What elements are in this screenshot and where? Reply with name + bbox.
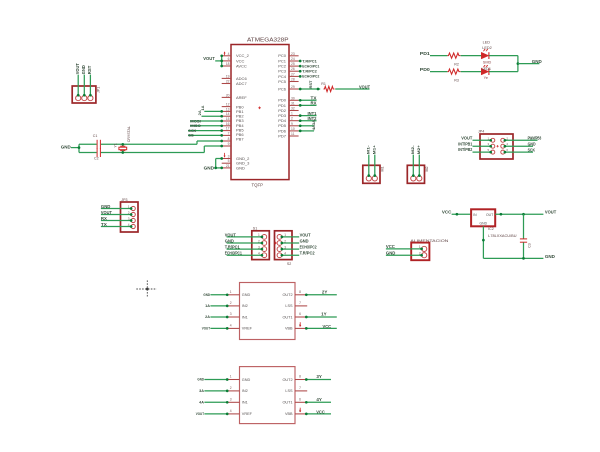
- power arrow above IC1 pin 4: [224, 52, 226, 55]
- svg-text:8: 8: [299, 375, 301, 379]
- svg-text:T.R/PC1: T.R/PC1: [225, 245, 241, 250]
- svg-text:RST: RST: [308, 80, 313, 89]
- wire net 2A to IC3 left: [205, 315, 228, 319]
- svg-text:VOUT: VOUT: [75, 63, 80, 74]
- IC1 left pins with pin numbers and names: [222, 52, 250, 171]
- wire net INT2: [299, 116, 318, 122]
- svg-text:LSS: LSS: [285, 304, 293, 308]
- svg-text:1Y: 1Y: [321, 312, 327, 317]
- svg-text:LED2: LED2: [482, 46, 492, 50]
- svg-text:3A: 3A: [199, 389, 204, 393]
- wire LED1 to junction: [489, 71, 518, 73]
- svg-text:PC5: PC5: [278, 79, 287, 84]
- wire net PD1 to R2: [420, 51, 448, 56]
- svg-text:1: 1: [230, 375, 232, 379]
- svg-text:LSS: LSS: [285, 389, 293, 393]
- svg-text:VOUT: VOUT: [196, 412, 205, 416]
- svg-text:29: 29: [291, 85, 295, 89]
- svg-text:1: 1: [230, 290, 232, 294]
- wire net PWM/PB3 to JP4 right: [504, 136, 542, 142]
- wire net GND to S1: [225, 238, 263, 244]
- connector S1: [252, 227, 269, 260]
- svg-text:1: 1: [291, 112, 293, 116]
- svg-text:PWM/PB3: PWM/PB3: [528, 136, 542, 141]
- svg-text:VOUT: VOUT: [359, 84, 370, 89]
- wire net GND to JP1 pin 2: [81, 65, 86, 96]
- svg-text:2: 2: [230, 386, 232, 390]
- wire net 4Y to IC4 right: [305, 397, 331, 404]
- wire net 3A: [299, 120, 317, 127]
- svg-text:22: 22: [226, 80, 230, 84]
- svg-text:SMD: SMD: [483, 61, 492, 65]
- svg-text:INT/PB1: INT/PB1: [458, 141, 473, 146]
- svg-text:PD7: PD7: [278, 133, 287, 138]
- wire net 1A to IC3 left: [205, 304, 228, 308]
- wire net 4A: [299, 125, 317, 132]
- svg-text:PD0: PD0: [420, 67, 431, 72]
- junction of LED cathodes to GND: [517, 56, 542, 72]
- svg-text:VREF: VREF: [242, 412, 253, 416]
- svg-text:2A: 2A: [205, 315, 210, 319]
- resistor R1: [321, 82, 334, 92]
- svg-text:GND: GND: [81, 65, 86, 74]
- svg-text:GND: GND: [532, 59, 542, 64]
- svg-text:26: 26: [291, 67, 295, 71]
- wire net INT/PB2 to JP4 left: [458, 147, 492, 153]
- wire net M1- to M1 pin 1: [366, 144, 371, 177]
- wire net ECHO/PC2 to S2: [281, 245, 318, 251]
- wire net 3Y to IC4 right: [305, 374, 331, 381]
- connector JP1: [72, 86, 100, 103]
- svg-text:L78LXXACU/BU: L78LXXACU/BU: [488, 234, 517, 238]
- wire net VOUT to JP3: [101, 210, 133, 216]
- svg-text:T.R/PC2: T.R/PC2: [300, 251, 316, 256]
- node GND at IC1 ground pins: [204, 157, 223, 170]
- wire net GND to IC3 left: [203, 293, 228, 297]
- wire net RST to JP1 pin 3: [87, 65, 92, 96]
- svg-text:AVCC: AVCC: [236, 63, 247, 68]
- motor driver IC4 body: [240, 367, 296, 424]
- wire net 1Y to IC3 right: [305, 312, 337, 319]
- svg-text:32: 32: [291, 107, 295, 111]
- wire net TX to JP3: [101, 222, 133, 228]
- svg-text:7: 7: [299, 386, 301, 390]
- svg-text:18: 18: [226, 62, 230, 66]
- wire net RX to JP3: [101, 216, 133, 222]
- svg-text:GND: GND: [101, 204, 111, 209]
- svg-text:9: 9: [291, 122, 293, 126]
- svg-text:C2: C2: [94, 157, 99, 161]
- svg-text:ADC7: ADC7: [236, 81, 247, 86]
- wire XTAL2 bottom: [79, 145, 223, 153]
- svg-text:20: 20: [226, 93, 230, 97]
- svg-text:VOUT: VOUT: [203, 56, 215, 61]
- svg-text:3: 3: [230, 312, 232, 316]
- svg-text:25: 25: [291, 62, 295, 66]
- ground arrow above IC1 pin 3: [224, 153, 226, 157]
- wire to node VOUT after R1: [335, 84, 370, 89]
- crystal Y1: [114, 126, 132, 154]
- svg-text:ECHO/PC2: ECHO/PC2: [302, 74, 320, 79]
- svg-text:IN2: IN2: [242, 389, 248, 393]
- svg-text:24: 24: [291, 57, 295, 61]
- wire PB3 net MOSI: [190, 118, 223, 123]
- wire net INT/PB1 to JP4 left: [458, 141, 492, 147]
- svg-text:LED: LED: [483, 41, 491, 45]
- svg-text:VREF: VREF: [242, 327, 253, 331]
- svg-text:VCC: VCC: [316, 410, 325, 415]
- wire net GND to JP3: [101, 204, 133, 210]
- svg-text:VOUT: VOUT: [300, 232, 311, 237]
- IC1 right pins with pin numbers and names: [278, 52, 298, 139]
- svg-text:15: 15: [226, 117, 230, 121]
- svg-text:3: 3: [230, 397, 232, 401]
- svg-text:27: 27: [291, 72, 295, 76]
- svg-text:JP4: JP4: [478, 130, 484, 134]
- svg-text:30: 30: [291, 96, 295, 100]
- svg-text:SCK: SCK: [528, 147, 535, 152]
- svg-text:GND: GND: [242, 378, 251, 382]
- svg-text:SS: SS: [188, 133, 194, 138]
- svg-text:M2-: M2-: [410, 144, 415, 154]
- wire XTAL1 top: [79, 140, 223, 145]
- wire net M1+ to M1 pin 2: [372, 144, 377, 176]
- svg-text:RX: RX: [101, 216, 107, 221]
- svg-text:GND: GND: [225, 238, 234, 243]
- wire net VOUT to IC3 left: [202, 327, 229, 331]
- svg-text:ECHO/PC1: ECHO/PC1: [225, 251, 243, 256]
- svg-text:7: 7: [228, 131, 230, 135]
- wire regulator ground rail to node GND: [482, 226, 556, 259]
- wire net VOUT to IC4 left: [196, 412, 229, 416]
- capacitor C1: [93, 134, 101, 149]
- wire net ECHO/PC2: [299, 74, 320, 79]
- wire net VCC to IC4 right: [305, 410, 331, 416]
- svg-text:PB7: PB7: [236, 137, 244, 142]
- svg-text:3A: 3A: [311, 120, 316, 125]
- wire PB1 net 1A: [200, 105, 223, 112]
- connector S2: [274, 231, 292, 266]
- node VOUT at IC1 VCC pins: [203, 54, 223, 67]
- svg-text:2Y: 2Y: [322, 290, 328, 295]
- motor driver IC3 body: [240, 283, 296, 340]
- svg-text:Ye: Ye: [484, 76, 488, 80]
- svg-text:GND: GND: [236, 165, 245, 170]
- wire net VOUT to JP4 left: [461, 135, 492, 141]
- svg-text:4Y: 4Y: [316, 397, 322, 402]
- svg-text:OUT2: OUT2: [282, 293, 292, 297]
- node GND at crystal: [61, 144, 81, 152]
- LED LED1: [481, 65, 491, 80]
- wire PB6 net SS: [188, 133, 223, 138]
- svg-text:IN1: IN1: [242, 315, 248, 319]
- svg-text:M2+: M2+: [416, 144, 421, 154]
- svg-text:C1: C1: [93, 134, 98, 138]
- wire LED2 to junction: [489, 55, 518, 57]
- svg-text:LED1: LED1: [482, 67, 492, 71]
- svg-text:2: 2: [230, 301, 232, 305]
- connector M1: [363, 165, 385, 183]
- svg-text:3Y: 3Y: [316, 374, 322, 379]
- node VCC at regulator input: [442, 210, 471, 216]
- svg-text:4: 4: [228, 52, 230, 56]
- wire net M2- to M2 pin 1: [410, 144, 415, 177]
- svg-text:IN2: IN2: [242, 304, 248, 308]
- wire RESET net with rotated label RST: [299, 80, 321, 90]
- svg-text:ECHO/PC2: ECHO/PC2: [300, 245, 318, 250]
- svg-text:GND: GND: [204, 165, 215, 170]
- svg-text:PD1: PD1: [420, 51, 431, 56]
- svg-text:M2: M2: [425, 167, 429, 172]
- svg-text:R1: R1: [321, 82, 326, 86]
- wire net PD0 to R3: [420, 67, 448, 72]
- svg-text:VOUT: VOUT: [101, 210, 112, 215]
- svg-text:GND: GND: [61, 144, 72, 149]
- wire net 4A to IC4 left: [199, 401, 228, 405]
- svg-text:VOUT: VOUT: [461, 135, 472, 140]
- svg-text:TX: TX: [101, 222, 107, 227]
- wire net T.R/PC2 to S2: [281, 251, 316, 257]
- svg-text:IN1: IN1: [242, 401, 248, 405]
- connector JP4 dual row: [478, 130, 513, 159]
- wire PB2 net 2A: [197, 110, 223, 117]
- origin crosshair marker: [136, 280, 156, 297]
- svg-text:19: 19: [226, 74, 230, 78]
- svg-text:23: 23: [291, 52, 295, 56]
- svg-text:GND: GND: [300, 238, 309, 243]
- wire PB4 net MISO: [190, 123, 223, 128]
- svg-text:INT/PB2: INT/PB2: [458, 147, 473, 152]
- wire PB5 net SCK: [188, 128, 223, 133]
- svg-text:10: 10: [291, 127, 295, 131]
- wire net T.R/PC1 to S1: [225, 245, 263, 251]
- wire net INT1: [299, 111, 318, 117]
- svg-text:M1+: M1+: [372, 144, 377, 154]
- svg-text:R3: R3: [454, 78, 459, 82]
- svg-text:TQFP: TQFP: [252, 182, 264, 188]
- svg-text:VBB: VBB: [285, 412, 293, 416]
- connector M2: [407, 165, 429, 183]
- svg-text:JP1: JP1: [96, 87, 100, 93]
- svg-text:13: 13: [226, 107, 230, 111]
- svg-text:RST: RST: [87, 65, 92, 74]
- svg-text:OUT: OUT: [486, 213, 493, 217]
- connector JP3: [121, 198, 139, 232]
- voltage regulator IC2 L78LXX: [471, 209, 517, 238]
- svg-text:M1-: M1-: [366, 144, 371, 154]
- svg-text:6: 6: [228, 57, 230, 61]
- svg-text:Y1: Y1: [114, 143, 118, 147]
- IC3 right pins 8,7,6,5: [295, 290, 307, 328]
- resistor R3: [447, 69, 460, 82]
- svg-text:GND: GND: [545, 254, 556, 259]
- svg-text:6: 6: [299, 312, 301, 316]
- svg-text:IC2: IC2: [488, 227, 494, 231]
- wire net GND to IC4 left: [197, 378, 228, 382]
- wire net VOUT to S1: [225, 232, 263, 238]
- svg-text:IN: IN: [473, 213, 477, 217]
- wire net T.R/PC1: [299, 58, 318, 63]
- svg-text:ATMEGA328P: ATMEGA328P: [247, 37, 289, 43]
- wire net VOUT to JP1 pin 1: [75, 63, 80, 97]
- wire regulator output to node VOUT: [495, 210, 556, 216]
- svg-text:AREF: AREF: [236, 95, 247, 100]
- IC4 right pins 8,7,6,5: [295, 375, 307, 414]
- svg-text:VOUT: VOUT: [225, 232, 236, 237]
- wire net 2Y to IC3 right: [305, 290, 337, 297]
- LED LED2: [481, 41, 491, 65]
- svg-text:31: 31: [291, 101, 295, 105]
- wire net VOUT to S2: [281, 232, 311, 238]
- wire net T.R/PC2: [299, 69, 318, 74]
- capacitor C3: [520, 214, 532, 258]
- svg-text:OUT2: OUT2: [282, 378, 292, 382]
- svg-text:7: 7: [299, 301, 301, 305]
- svg-text:14: 14: [226, 112, 230, 116]
- svg-text:4: 4: [230, 409, 232, 413]
- wire net GND to JP4 right: [504, 142, 536, 148]
- svg-text:17: 17: [226, 127, 230, 131]
- svg-text:GND: GND: [242, 293, 251, 297]
- svg-text:9: 9: [228, 142, 230, 146]
- svg-text:PC6: PC6: [278, 86, 287, 91]
- wire net VCC to IC3 right: [305, 324, 337, 330]
- IC4 left pins 1-4: [227, 375, 239, 414]
- svg-text:GND: GND: [528, 142, 536, 147]
- wire net RX: [299, 101, 317, 107]
- wire net ECHO/PC1 to S1: [225, 251, 263, 257]
- wire net ECHO/PC1: [299, 63, 320, 68]
- svg-text:C3: C3: [528, 243, 532, 248]
- svg-text:VBB: VBB: [285, 327, 293, 331]
- svg-text:VOUT: VOUT: [202, 327, 211, 331]
- svg-text:RX: RX: [311, 101, 317, 106]
- wire net GND to S2: [281, 238, 309, 244]
- wire net VCC to ALIMENTACION pin 1: [386, 244, 423, 250]
- svg-text:1A: 1A: [200, 105, 205, 110]
- svg-text:8: 8: [228, 137, 230, 141]
- wire net 3A to IC4 left: [199, 389, 228, 393]
- svg-text:GND: GND: [480, 222, 488, 226]
- svg-text:S2: S2: [287, 262, 291, 266]
- svg-text:R2: R2: [454, 62, 459, 66]
- svg-text:11: 11: [291, 132, 295, 136]
- svg-text:1A: 1A: [205, 304, 210, 308]
- svg-text:GND: GND: [386, 251, 396, 256]
- svg-text:VCC: VCC: [442, 210, 452, 215]
- svg-text:6: 6: [299, 398, 301, 402]
- svg-text:2: 2: [291, 117, 293, 121]
- svg-text:GND: GND: [203, 293, 210, 297]
- svg-text:VOUT: VOUT: [545, 210, 557, 215]
- wire R2 to LED2: [461, 55, 482, 57]
- svg-text:M1: M1: [381, 167, 385, 172]
- svg-text:4: 4: [230, 323, 232, 327]
- wire R3 to LED1: [461, 71, 482, 73]
- connector ALIMENTACION: [410, 238, 448, 260]
- svg-text:OUT1: OUT1: [282, 315, 292, 319]
- svg-text:4A: 4A: [311, 125, 316, 130]
- wire net M2+ to M2 pin 2: [416, 144, 421, 176]
- svg-text:GND: GND: [197, 378, 204, 382]
- svg-text:5: 5: [228, 159, 230, 163]
- wire net TX: [299, 96, 317, 102]
- svg-text:CRYSTAL: CRYSTAL: [127, 126, 131, 142]
- wire net GND to ALIMENTACION pin 2: [386, 251, 423, 257]
- svg-text:21: 21: [226, 164, 230, 168]
- svg-text:16: 16: [226, 122, 230, 126]
- svg-text:OUT1: OUT1: [282, 401, 292, 405]
- svg-text:4A: 4A: [199, 401, 204, 405]
- svg-text:28: 28: [291, 78, 295, 82]
- svg-text:2A: 2A: [197, 110, 202, 115]
- resistor R2: [447, 53, 460, 66]
- capacitor C2: [94, 148, 100, 161]
- svg-text:3: 3: [228, 155, 230, 159]
- wire net SCK to JP4 right: [504, 147, 535, 153]
- svg-text:12: 12: [226, 103, 230, 107]
- svg-text:VCC: VCC: [323, 324, 332, 329]
- microcontroller IC1 ATMEGA328P body: [231, 37, 289, 188]
- IC3 left pins 1-4: [227, 290, 239, 329]
- svg-text:VCC: VCC: [386, 244, 395, 249]
- svg-text:8: 8: [299, 290, 301, 294]
